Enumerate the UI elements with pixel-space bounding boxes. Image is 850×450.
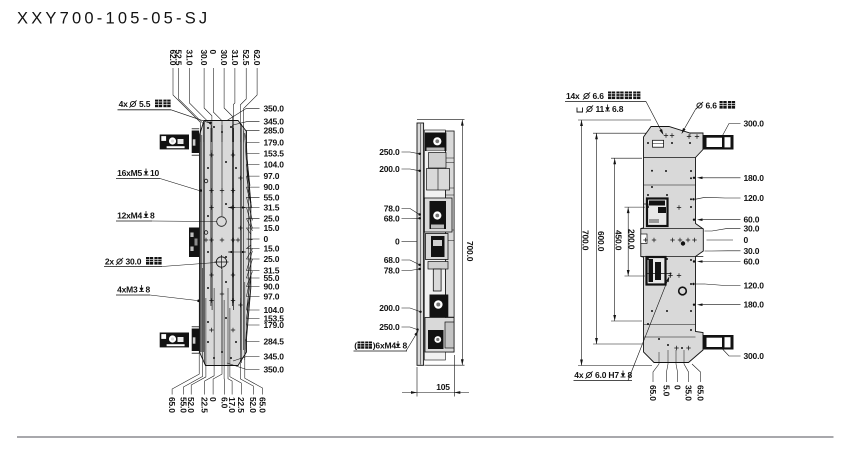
keyway notch on head <box>653 140 664 147</box>
dim label 0 <box>676 364 678 382</box>
dim label 65.0 <box>653 364 659 382</box>
tiny double-arrow marks <box>228 206 232 208</box>
svg-text:0: 0 <box>672 385 682 390</box>
svg-text:68.0: 68.0 <box>384 214 400 224</box>
svg-text:8: 8 <box>150 211 155 221</box>
motor block bottom-left <box>160 333 189 348</box>
svg-text:0: 0 <box>208 50 218 55</box>
svg-text:300.0: 300.0 <box>744 119 765 129</box>
svg-text:30.0: 30.0 <box>744 246 760 256</box>
motor bracket bottom-left <box>192 329 200 352</box>
svg-text:52.5: 52.5 <box>241 50 251 66</box>
svg-text:250.0: 250.0 <box>379 147 400 157</box>
svg-text:600.0: 600.0 <box>596 231 606 252</box>
svg-text:(: ( <box>354 341 357 351</box>
svg-text:65.0: 65.0 <box>257 397 267 413</box>
stage block lower (black box) <box>647 257 666 285</box>
svg-text:5.5: 5.5 <box>139 99 151 109</box>
svg-text:30.0: 30.0 <box>219 50 229 66</box>
svg-text:31.5: 31.5 <box>264 203 280 213</box>
svg-text:350.0: 350.0 <box>264 365 285 375</box>
hook marks <box>644 204 648 208</box>
svg-text:104.0: 104.0 <box>264 160 285 170</box>
svg-text:25.0: 25.0 <box>264 254 280 264</box>
svg-text:65.0: 65.0 <box>167 397 177 413</box>
svg-text:10: 10 <box>150 168 160 178</box>
bottom dimension fan leaders <box>172 280 199 395</box>
svg-text:15.0: 15.0 <box>264 244 280 254</box>
callout dia6.6 through <box>696 102 703 109</box>
svg-text:52.0: 52.0 <box>248 397 258 413</box>
svg-text:78.0: 78.0 <box>384 266 400 276</box>
witness lines through plate <box>199 125 201 352</box>
svg-text:200.0: 200.0 <box>627 229 637 250</box>
svg-text:6.6: 6.6 <box>593 91 605 101</box>
svg-text:284.5: 284.5 <box>264 337 285 347</box>
dim label 35.0 <box>684 364 689 382</box>
svg-text:250.0: 250.0 <box>379 322 400 332</box>
svg-text:30.0: 30.0 <box>199 50 209 66</box>
svg-text:180.0: 180.0 <box>744 300 765 310</box>
svg-text:120.0: 120.0 <box>744 193 765 203</box>
svg-text:300.0: 300.0 <box>744 351 765 361</box>
stem assembly <box>428 262 448 270</box>
svg-text:0: 0 <box>395 237 400 247</box>
right column strip <box>446 131 455 352</box>
through hole 2x dia30 with center cross <box>216 257 226 267</box>
svg-text:62.0: 62.0 <box>252 50 262 66</box>
svg-text:68.0: 68.0 <box>384 255 400 265</box>
svg-text:65.0: 65.0 <box>648 385 658 401</box>
svg-text:2x: 2x <box>105 257 115 267</box>
motor bracket top-left <box>192 131 200 154</box>
svg-text:90.0: 90.0 <box>264 182 280 192</box>
assembly D <box>425 318 454 353</box>
motor block bottom-right <box>703 335 734 350</box>
svg-text:200.0: 200.0 <box>379 303 400 313</box>
svg-text:22.5: 22.5 <box>236 397 246 413</box>
counterbore circle 12xM4 <box>217 217 227 227</box>
svg-text:14x: 14x <box>566 91 580 101</box>
svg-text:30.0: 30.0 <box>744 223 760 233</box>
left vertical dimension 700.0 <box>578 119 651 121</box>
svg-text:5.0: 5.0 <box>661 385 671 397</box>
motor block top-left <box>160 135 189 150</box>
bottom horizontal rule <box>17 436 834 438</box>
svg-text:31.0: 31.0 <box>184 50 194 66</box>
svg-text:105: 105 <box>436 382 450 392</box>
svg-text:8: 8 <box>403 341 408 351</box>
svg-text:35.0: 35.0 <box>683 385 693 401</box>
svg-text:4x: 4x <box>574 370 584 380</box>
width dim 105 (side view) <box>416 367 418 397</box>
svg-text:350.0: 350.0 <box>264 103 285 113</box>
svg-text:90.0: 90.0 <box>264 282 280 292</box>
svg-text:0: 0 <box>208 397 218 402</box>
svg-text:)6xM4: )6xM4 <box>373 341 397 351</box>
svg-text:345.0: 345.0 <box>264 352 285 362</box>
holes on top view <box>664 133 668 137</box>
bracket rows below A <box>429 153 447 169</box>
dim label 5.0 <box>667 364 669 382</box>
svg-text:6.6: 6.6 <box>706 101 718 111</box>
svg-text:285.0: 285.0 <box>264 125 285 135</box>
svg-text:0: 0 <box>744 235 749 245</box>
left vertical dimension 600.0 <box>593 132 646 134</box>
svg-text:700.0: 700.0 <box>581 230 591 251</box>
svg-text:120.0: 120.0 <box>744 281 765 291</box>
front view inner edge lines <box>201 135 203 352</box>
side view: base plate strip <box>417 123 424 365</box>
left vertical dimension 450.0 <box>611 157 642 159</box>
svg-text:4xM3: 4xM3 <box>117 285 138 295</box>
small drilled circles <box>204 231 208 235</box>
svg-text:200.0: 200.0 <box>379 164 400 174</box>
svg-text:31.0: 31.0 <box>230 50 240 66</box>
assembly B <box>424 198 452 232</box>
motor assembly C <box>430 295 449 318</box>
svg-text:11: 11 <box>596 104 605 114</box>
front view: main plate outline <box>200 121 251 366</box>
side view component stack <box>424 130 445 360</box>
svg-text:52.5: 52.5 <box>174 50 184 66</box>
ring holes <box>681 241 685 245</box>
svg-text:6.0 H7: 6.0 H7 <box>595 370 619 380</box>
svg-text:17.0: 17.0 <box>227 397 237 413</box>
motor block mid-left <box>189 228 199 258</box>
svg-text:52.0: 52.0 <box>186 397 196 413</box>
svg-text:16xM5: 16xM5 <box>117 168 142 178</box>
svg-text:60.0: 60.0 <box>744 257 760 267</box>
top dimension fan leaders <box>173 68 200 142</box>
svg-text:XXY700-105-05-SJ: XXY700-105-05-SJ <box>17 10 210 28</box>
svg-text:30.0: 30.0 <box>126 257 142 267</box>
svg-text:55.0: 55.0 <box>264 192 280 202</box>
svg-text:180.0: 180.0 <box>744 173 765 183</box>
svg-text:4x: 4x <box>119 99 129 109</box>
dim label 65.0 <box>692 364 701 382</box>
callout counterbore dia11 depth 6.8 <box>577 108 583 113</box>
svg-text:179.0: 179.0 <box>264 138 285 148</box>
svg-text:78.0: 78.0 <box>384 204 400 214</box>
stage block upper (black box) <box>647 199 668 227</box>
top view internal horizontal lines <box>644 157 696 159</box>
svg-text:8: 8 <box>146 285 151 295</box>
svg-text:700.0: 700.0 <box>465 241 475 262</box>
overall height dim 700.0 (side view) <box>417 119 465 121</box>
svg-text:65.0: 65.0 <box>695 385 705 401</box>
hole pattern crosses and dots on front plate <box>209 153 213 157</box>
svg-text:450.0: 450.0 <box>613 230 623 251</box>
notch window left bump <box>641 234 647 244</box>
svg-text:6.8: 6.8 <box>612 104 624 114</box>
top view: main plate outline <box>641 127 704 363</box>
svg-text:97.0: 97.0 <box>264 292 280 302</box>
motor assembly A <box>425 133 447 152</box>
svg-text:153.5: 153.5 <box>264 149 285 159</box>
svg-text:15.0: 15.0 <box>264 223 280 233</box>
svg-text:179.0: 179.0 <box>264 320 285 330</box>
motor block top-right <box>703 135 734 150</box>
svg-text:0: 0 <box>264 234 269 244</box>
svg-text:12xM4: 12xM4 <box>117 211 142 221</box>
svg-text:97.0: 97.0 <box>264 171 280 181</box>
left vertical dimension 200.0 <box>625 206 646 208</box>
assembly below B <box>426 234 449 260</box>
svg-text:22.5: 22.5 <box>200 397 210 413</box>
